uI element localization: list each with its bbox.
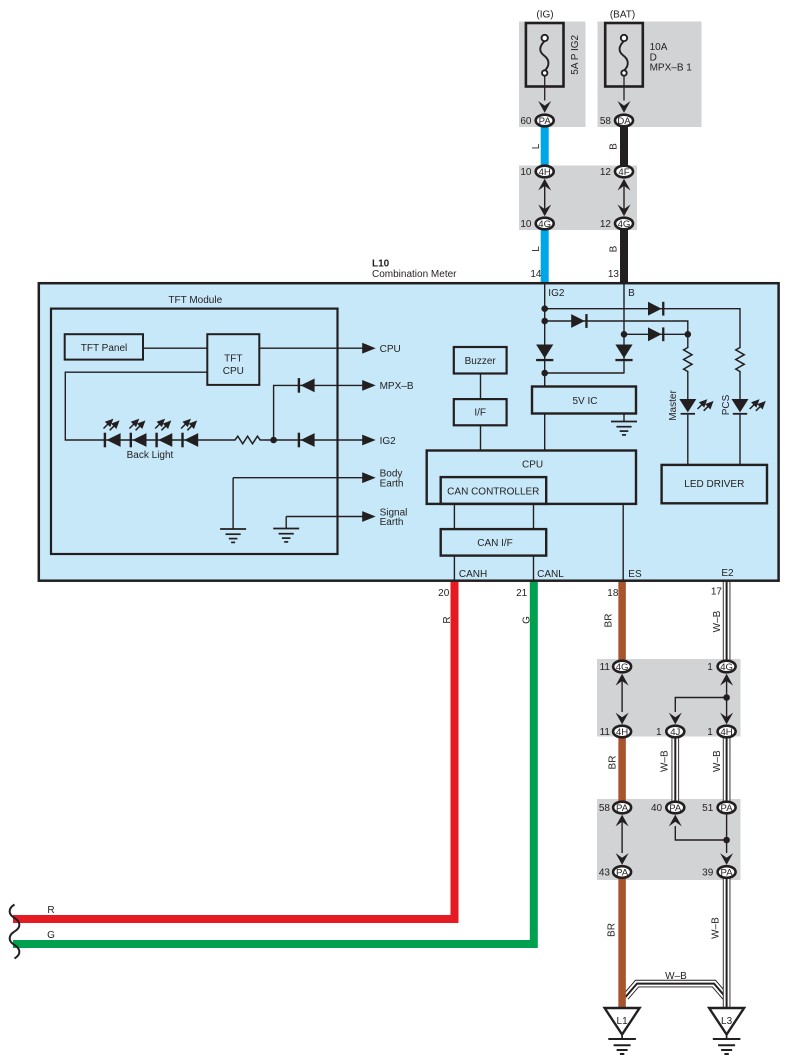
svg-text:4F: 4F xyxy=(618,167,629,178)
svg-text:PA: PA xyxy=(669,803,682,814)
svg-text:PCS: PCS xyxy=(721,394,732,415)
svg-text:IG2: IG2 xyxy=(548,288,565,299)
svg-text:CAN I/F: CAN I/F xyxy=(477,538,513,549)
svg-text:4H: 4H xyxy=(616,727,628,738)
svg-text:PA: PA xyxy=(539,116,552,127)
svg-text:IG2: IG2 xyxy=(380,436,397,447)
svg-text:MPX–B 1: MPX–B 1 xyxy=(650,63,693,74)
svg-text:11: 11 xyxy=(600,662,611,673)
svg-text:L1: L1 xyxy=(617,1016,629,1027)
svg-text:10: 10 xyxy=(520,167,532,178)
svg-text:BR: BR xyxy=(604,614,615,628)
svg-text:MPX–B: MPX–B xyxy=(380,381,414,392)
svg-text:13: 13 xyxy=(608,269,620,280)
svg-text:4H: 4H xyxy=(539,167,551,178)
svg-text:CPU: CPU xyxy=(522,459,543,470)
svg-text:PA: PA xyxy=(721,868,734,879)
svg-text:14: 14 xyxy=(530,269,542,280)
svg-text:LED DRIVER: LED DRIVER xyxy=(684,479,744,490)
svg-text:1: 1 xyxy=(707,662,713,673)
svg-text:11: 11 xyxy=(600,727,611,738)
svg-text:G: G xyxy=(47,930,55,941)
svg-text:TFT: TFT xyxy=(224,354,242,365)
svg-text:B: B xyxy=(609,143,620,150)
svg-text:58: 58 xyxy=(600,116,612,127)
svg-text:20: 20 xyxy=(438,588,450,599)
svg-text:Back Light: Back Light xyxy=(127,450,174,461)
svg-text:10: 10 xyxy=(520,219,532,230)
svg-text:PA: PA xyxy=(721,803,734,814)
svg-text:60: 60 xyxy=(520,116,532,127)
svg-text:L3: L3 xyxy=(721,1016,733,1027)
svg-text:(BAT): (BAT) xyxy=(610,10,635,21)
svg-text:L: L xyxy=(531,246,542,252)
svg-text:CPU: CPU xyxy=(223,366,244,377)
svg-text:W–B: W–B xyxy=(712,610,723,632)
svg-text:43: 43 xyxy=(599,868,611,879)
svg-text:4G: 4G xyxy=(616,662,629,673)
svg-text:W–B: W–B xyxy=(712,750,723,772)
svg-text:4G: 4G xyxy=(720,662,733,673)
svg-text:(IG): (IG) xyxy=(536,10,553,21)
svg-text:Master: Master xyxy=(668,390,679,421)
svg-text:4H: 4H xyxy=(720,727,732,738)
svg-text:4G: 4G xyxy=(618,219,631,230)
svg-text:10A: 10A xyxy=(650,42,668,53)
svg-text:4G: 4G xyxy=(538,219,551,230)
svg-text:51: 51 xyxy=(702,803,714,814)
svg-text:Buzzer: Buzzer xyxy=(465,356,497,367)
svg-text:CANL: CANL xyxy=(537,569,564,580)
svg-text:DA: DA xyxy=(617,116,631,127)
svg-text:17: 17 xyxy=(711,587,723,598)
svg-text:Earth: Earth xyxy=(380,478,404,489)
svg-text:21: 21 xyxy=(516,588,528,599)
svg-text:5A P IG2: 5A P IG2 xyxy=(570,34,581,74)
svg-text:W–B: W–B xyxy=(710,917,721,939)
svg-text:CAN CONTROLLER: CAN CONTROLLER xyxy=(447,486,539,497)
svg-text:BR: BR xyxy=(607,923,618,937)
svg-text:39: 39 xyxy=(702,868,714,879)
svg-text:58: 58 xyxy=(599,803,611,814)
svg-text:BR: BR xyxy=(608,756,619,770)
svg-text:R: R xyxy=(47,905,54,916)
svg-text:W–B: W–B xyxy=(660,750,671,772)
svg-text:18: 18 xyxy=(607,588,619,599)
svg-text:G: G xyxy=(521,616,532,624)
svg-text:4J: 4J xyxy=(670,727,680,738)
svg-text:E2: E2 xyxy=(721,568,734,579)
svg-text:CANH: CANH xyxy=(459,569,487,580)
svg-text:PA: PA xyxy=(616,803,629,814)
svg-text:B: B xyxy=(628,288,635,299)
svg-text:TFT Module: TFT Module xyxy=(168,295,222,306)
svg-text:40: 40 xyxy=(651,803,663,814)
svg-text:Combination Meter: Combination Meter xyxy=(372,269,457,280)
svg-text:ES: ES xyxy=(628,569,642,580)
svg-text:1: 1 xyxy=(707,727,713,738)
svg-text:W–B: W–B xyxy=(665,971,687,982)
svg-text:PA: PA xyxy=(616,868,629,879)
svg-text:I/F: I/F xyxy=(474,408,486,419)
svg-text:1: 1 xyxy=(656,727,662,738)
svg-text:12: 12 xyxy=(600,219,612,230)
svg-text:Earth: Earth xyxy=(380,517,404,528)
svg-text:CPU: CPU xyxy=(380,344,401,355)
svg-text:5V IC: 5V IC xyxy=(572,396,597,407)
svg-text:B: B xyxy=(609,245,620,252)
svg-text:TFT Panel: TFT Panel xyxy=(81,343,128,354)
svg-text:L: L xyxy=(531,143,542,149)
svg-text:12: 12 xyxy=(600,167,612,178)
svg-text:R: R xyxy=(442,616,453,623)
